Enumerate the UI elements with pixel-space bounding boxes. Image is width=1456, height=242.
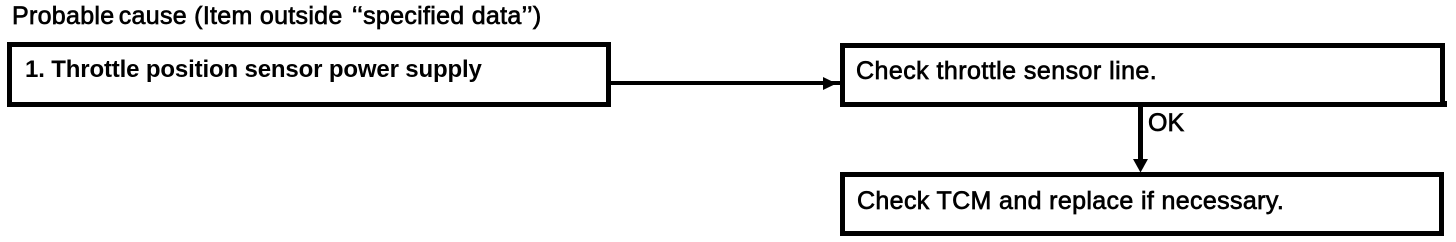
box B2 label: [856, 59, 1157, 84]
box B3 label: [857, 189, 1284, 214]
wire: B2 to B3 vertical: [1138, 106, 1143, 159]
node label OK: [1148, 111, 1184, 136]
title text: Probable cause: [12, 4, 541, 29]
arrowhead into B3: [1133, 159, 1148, 173]
box B1: Throttle position sensor power supply: [7, 42, 611, 108]
wire: B1 to B2 horizontal: [611, 81, 840, 85]
box B3: Check TCM and replace if necessary.: [840, 172, 1444, 236]
box B1 label: [25, 58, 482, 82]
box B2 bottom-right scan nub: [1444, 101, 1447, 107]
box B2: Check throttle sensor line.: [840, 43, 1445, 107]
arrowhead into B2: [823, 77, 837, 90]
